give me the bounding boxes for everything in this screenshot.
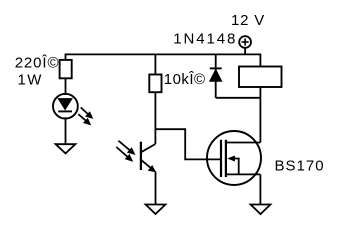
wire 12V supply stub xyxy=(244,48,246,55)
ground under phototransistor xyxy=(146,205,166,215)
relay coil K1 xyxy=(239,67,282,88)
ground under MOSFET xyxy=(251,205,271,215)
wire relay coil to MOSFET drain xyxy=(259,87,261,143)
wire resistor 10k to collector node xyxy=(154,92,156,144)
resistor 10k xyxy=(149,75,161,93)
phototransistor Q1 xyxy=(141,142,156,172)
wire MOSFET source to ground xyxy=(259,174,261,205)
MOSFET BS170 xyxy=(207,131,261,185)
wire rail to resistor 10k xyxy=(154,54,156,74)
LED indicator xyxy=(53,94,78,119)
wire diode bottom to drain node xyxy=(216,97,261,99)
wire LED to ground xyxy=(65,117,67,145)
diode 1N4148 xyxy=(210,68,222,81)
resistor 220 ohm xyxy=(60,60,72,78)
12V supply terminal xyxy=(239,36,251,48)
wire rail to resistor 220 xyxy=(65,54,67,61)
svg-text:12 V: 12 V xyxy=(231,12,265,29)
svg-text:BS170: BS170 xyxy=(275,158,325,175)
LED light emission arrows xyxy=(78,107,93,125)
wire top supply rail xyxy=(66,53,261,55)
wire phototransistor emitter to ground xyxy=(155,172,157,206)
ground under LED xyxy=(56,144,76,153)
wire rail to relay coil xyxy=(259,54,261,67)
svg-text:1N4148: 1N4148 xyxy=(173,30,237,47)
wire resistor 220 to LED xyxy=(65,78,67,95)
svg-text:220Î©: 220Î© xyxy=(15,55,60,72)
phototransistor incident light arrows xyxy=(116,141,134,162)
wire collector node to MOSFET gate xyxy=(155,129,221,159)
svg-text:10kÎ©: 10kÎ© xyxy=(164,71,206,88)
svg-text:1W: 1W xyxy=(18,72,43,89)
wire diode branch vertical xyxy=(215,54,217,97)
